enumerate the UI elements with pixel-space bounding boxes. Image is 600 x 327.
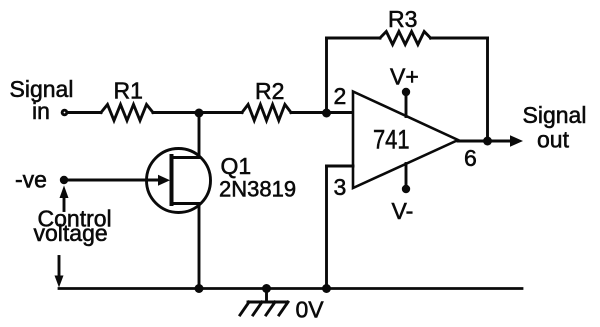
op-amp U1 741 triangle [353, 92, 458, 189]
transistor Q1 source tap [173, 202, 199, 205]
wire: 0V ground rail [59, 287, 522, 290]
wire: gate [64, 179, 159, 182]
svg-text:-ve: -ve [15, 167, 47, 193]
transistor Q1 circle [147, 149, 211, 213]
wire: pin3 horizontal [327, 165, 354, 168]
node: source/rail junction [195, 284, 204, 293]
svg-text:R2: R2 [255, 78, 284, 104]
wire: R1 to R2 [153, 111, 242, 114]
node B: junction pin2/feedback [322, 109, 331, 118]
svg-text:2: 2 [334, 83, 347, 109]
arrow: signal out [510, 135, 523, 147]
svg-text:in: in [32, 98, 50, 124]
svg-text:Q1: Q1 [221, 153, 252, 179]
svg-text:R1: R1 [114, 78, 143, 104]
wire: source to ground rail [198, 204, 201, 289]
arrow: control voltage up arrow [63, 197, 66, 211]
arrow: gate arrowhead [158, 175, 170, 186]
node: -ve terminal [60, 176, 68, 184]
svg-text:R3: R3 [388, 6, 417, 32]
resistor R2 [242, 105, 291, 121]
svg-text:V-: V- [392, 198, 414, 224]
wire: feedback top left [327, 37, 381, 40]
node: ground tap junction [262, 284, 271, 293]
wire: V- stub [405, 164, 408, 190]
svg-text:V+: V+ [390, 64, 419, 90]
svg-text:741: 741 [373, 125, 410, 155]
transistor Q1 drain tap [173, 156, 199, 159]
transistor Q1 channel bar [170, 156, 174, 204]
node: pin3/rail junction [322, 284, 331, 293]
wire: feedback right vertical [486, 38, 489, 141]
svg-text:0V: 0V [296, 297, 325, 323]
svg-text:Signal: Signal [523, 102, 587, 128]
wire: V+ stub [405, 92, 408, 117]
arrow: control voltage down arrow [58, 257, 61, 278]
wire: signal in to R1 [68, 111, 101, 114]
node: Signal in terminal [61, 109, 69, 117]
wire: feedback left vertical [325, 38, 328, 113]
node: V+ dot [402, 88, 410, 96]
resistor R3 [380, 32, 431, 45]
resistor R1 [101, 105, 153, 121]
node: output junction [483, 137, 492, 146]
node A: junction R1/R2/drain [195, 109, 204, 118]
svg-text:6: 6 [464, 145, 477, 171]
wire: feedback top right [431, 37, 488, 40]
svg-text:2N3819: 2N3819 [219, 177, 296, 202]
node: V- dot [402, 185, 410, 193]
wire: pin3 vertical to ground rail [325, 166, 328, 289]
wire: output [458, 140, 511, 143]
svg-text:3: 3 [334, 174, 347, 200]
ground symbol [240, 289, 288, 316]
wire: R2 to op-amp pin 2 [291, 111, 353, 114]
svg-text:out: out [537, 127, 570, 153]
svg-text:voltage: voltage [34, 220, 108, 246]
wire: drain to node A [198, 113, 201, 158]
